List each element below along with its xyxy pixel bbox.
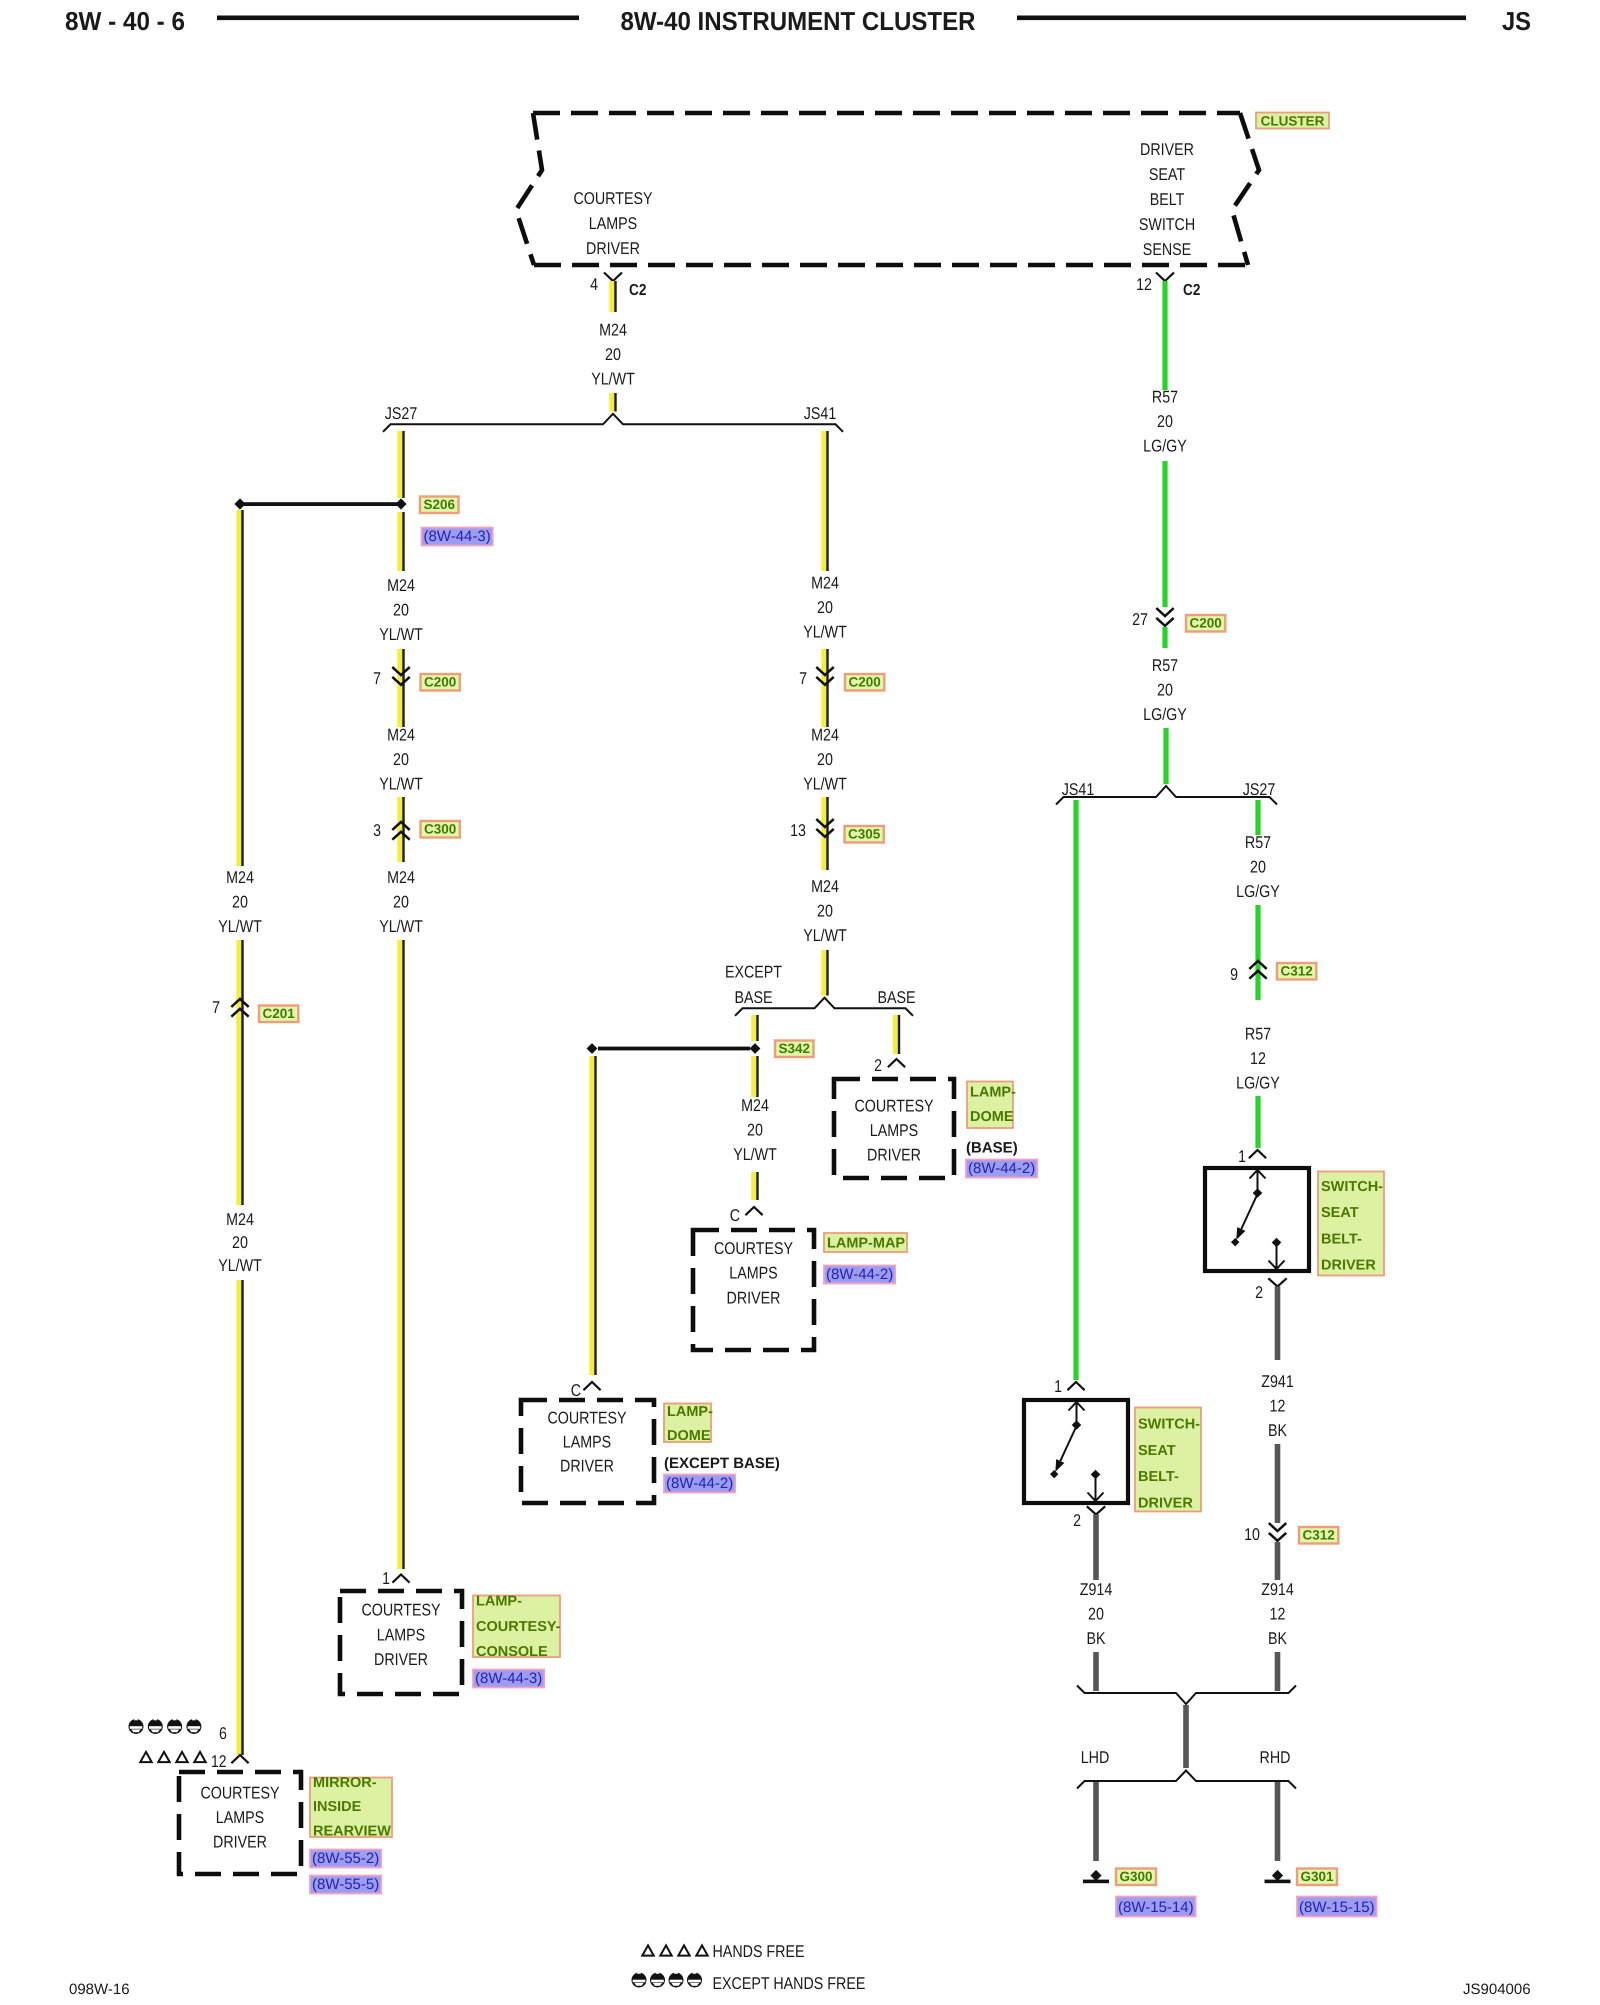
label SWITCH-SEAT BELT-DRIVER left bbox=[1135, 1408, 1201, 1512]
svg-text:LG/GY: LG/GY bbox=[1236, 882, 1280, 901]
splice S206 diamond right bbox=[395, 498, 406, 509]
wire above map lamp bbox=[751, 1172, 758, 1200]
label LAMP-MAP bbox=[824, 1233, 907, 1252]
svg-text:12: 12 bbox=[211, 1752, 227, 1771]
svg-text:2: 2 bbox=[1255, 1283, 1263, 1302]
label C200 bbox=[845, 674, 884, 691]
svg-text:DRIVER: DRIVER bbox=[867, 1146, 921, 1165]
ground G300 symbol bbox=[1083, 1870, 1109, 1883]
pin number 3 bbox=[373, 821, 381, 840]
svg-text:BASE: BASE bbox=[734, 988, 772, 1007]
svg-text:20: 20 bbox=[1088, 1605, 1104, 1624]
wire below S206 bbox=[397, 512, 404, 571]
wire base branch bbox=[893, 1015, 900, 1054]
svg-text:BASE: BASE bbox=[877, 988, 915, 1007]
wire label Z914 12 BK bbox=[1261, 1580, 1294, 1648]
wire R57 to JS split bbox=[1163, 728, 1168, 784]
header code JS bbox=[1502, 6, 1531, 36]
footer drawing number JS904006 bbox=[1463, 1981, 1531, 1998]
label C300 bbox=[421, 821, 460, 838]
svg-text:JS41: JS41 bbox=[804, 404, 837, 423]
svg-text:(BASE): (BASE) bbox=[966, 1140, 1018, 1157]
svg-text:LAMPS: LAMPS bbox=[216, 1808, 264, 1827]
splice S342 horizontal wire bbox=[598, 1047, 750, 1051]
svg-text:4: 4 bbox=[590, 275, 598, 294]
reference (8W-55-2) bbox=[310, 1850, 381, 1868]
option pin number 6 bbox=[219, 1724, 227, 1743]
header page number 8W - 40 - 6 bbox=[65, 6, 185, 36]
svg-text:M24: M24 bbox=[811, 726, 839, 745]
svg-text:C305: C305 bbox=[848, 827, 881, 842]
merge brace Z914 join bbox=[1077, 1686, 1296, 1705]
connector C200 chevrons bbox=[1156, 608, 1173, 626]
label CLUSTER bbox=[1256, 113, 1329, 129]
legend text HANDS FREE bbox=[713, 1942, 805, 1961]
wire M24 to splice brace bbox=[609, 393, 616, 412]
box text COURTESY LAMPS DRIVER bbox=[361, 1601, 440, 1669]
svg-text:SENSE: SENSE bbox=[1143, 240, 1191, 259]
svg-text:LAMPS: LAMPS bbox=[563, 1433, 611, 1452]
svg-text:RHD: RHD bbox=[1260, 1748, 1291, 1767]
svg-text:JS41: JS41 bbox=[1062, 780, 1095, 799]
svg-text:SEAT: SEAT bbox=[1321, 1205, 1359, 1221]
component CLUSTER dashed box bbox=[516, 113, 1259, 265]
svg-text:M24: M24 bbox=[599, 321, 627, 340]
wire Z941 from right switch bbox=[1275, 1287, 1281, 1361]
pin number 1 bbox=[382, 1569, 390, 1588]
svg-text:1: 1 bbox=[1054, 1377, 1062, 1396]
wire label R57 12 LG/GY bbox=[1236, 1025, 1280, 1093]
branch label JS27 bbox=[385, 404, 418, 423]
svg-text:8W-40 INSTRUMENT CLUSTER: 8W-40 INSTRUMENT CLUSTER bbox=[621, 6, 976, 36]
box text COURTESY LAMPS DRIVER bbox=[714, 1239, 793, 1307]
pin number 7 bbox=[799, 669, 807, 688]
wire R57 to C200 bbox=[1162, 461, 1167, 607]
svg-text:CONSOLE: CONSOLE bbox=[476, 1644, 548, 1660]
pin number 1 bbox=[1238, 1147, 1246, 1166]
svg-text:20: 20 bbox=[393, 750, 409, 769]
svg-text:20: 20 bbox=[1250, 858, 1266, 877]
label C200 bbox=[1186, 615, 1225, 632]
split brace LHD / RHD bbox=[1077, 1771, 1296, 1789]
svg-text:Z941: Z941 bbox=[1261, 1372, 1294, 1391]
svg-text:BELT-: BELT- bbox=[1321, 1231, 1362, 1247]
svg-text:SEAT: SEAT bbox=[1149, 165, 1185, 184]
legend except hands free circles bbox=[632, 1973, 703, 1988]
component LAMP-COURTESY-CONSOLE dashed box bbox=[340, 1591, 462, 1694]
svg-text:DRIVER: DRIVER bbox=[727, 1288, 781, 1307]
legend text EXCEPT HANDS FREE bbox=[713, 1974, 866, 1993]
wire to base split bbox=[821, 950, 828, 996]
svg-text:LAMP-: LAMP- bbox=[667, 1404, 713, 1420]
svg-text:BK: BK bbox=[1268, 1629, 1288, 1648]
svg-text:YL/WT: YL/WT bbox=[379, 917, 423, 936]
wire label M24 20 YL/WT bbox=[218, 868, 262, 936]
svg-text:20: 20 bbox=[817, 598, 833, 617]
svg-text:SWITCH: SWITCH bbox=[1139, 215, 1195, 234]
connector C2 pin 4 half-symbol bbox=[604, 273, 622, 282]
pin number 2 bbox=[1073, 1511, 1081, 1530]
svg-text:COURTESY: COURTESY bbox=[361, 1601, 440, 1620]
component SWITCH-SEAT BELT-DRIVER right box bbox=[1205, 1168, 1309, 1271]
wire label M24 20 YL/WT bbox=[379, 868, 423, 936]
box text COURTESY LAMPS DRIVER bbox=[854, 1096, 933, 1164]
svg-text:Z914: Z914 bbox=[1080, 1580, 1113, 1599]
label S206 bbox=[420, 497, 459, 514]
label C201 bbox=[259, 1006, 298, 1023]
svg-text:BK: BK bbox=[1087, 1629, 1107, 1648]
svg-text:7: 7 bbox=[212, 998, 220, 1017]
wire long run to mirror bbox=[236, 1280, 243, 1755]
svg-text:EXCEPT: EXCEPT bbox=[725, 963, 782, 982]
svg-text:JS: JS bbox=[1502, 6, 1531, 36]
splice S342 diamond right bbox=[750, 1043, 761, 1054]
pin number 4 bbox=[590, 275, 598, 294]
svg-text:YL/WT: YL/WT bbox=[733, 1145, 777, 1164]
svg-text:C312: C312 bbox=[1280, 964, 1312, 979]
label C312 bbox=[1299, 1527, 1338, 1544]
svg-text:DRIVER: DRIVER bbox=[213, 1832, 267, 1851]
svg-text:C2: C2 bbox=[629, 282, 646, 299]
svg-text:DOME: DOME bbox=[667, 1428, 711, 1444]
split brace JS27 / JS41 bbox=[383, 414, 843, 432]
svg-text:20: 20 bbox=[605, 345, 621, 364]
svg-text:YL/WT: YL/WT bbox=[379, 775, 423, 794]
svg-text:YL/WT: YL/WT bbox=[591, 370, 635, 389]
wire R57 to right switch bbox=[1255, 1096, 1260, 1148]
pin letter C bbox=[730, 1206, 740, 1225]
reference (8W-44-2) bbox=[824, 1266, 895, 1284]
wire Z941 to C312 bbox=[1275, 1444, 1281, 1523]
wire JS41 long run bbox=[1073, 800, 1078, 1380]
pin number 13 bbox=[790, 821, 806, 840]
svg-text:9: 9 bbox=[1230, 965, 1238, 984]
branch label JS41 bbox=[804, 404, 837, 423]
branch label LHD bbox=[1081, 1748, 1110, 1767]
svg-text:(8W-55-5): (8W-55-5) bbox=[312, 1876, 379, 1893]
splice S342 diamond left bbox=[587, 1043, 598, 1054]
wire Z914 joined bbox=[1183, 1705, 1189, 1768]
svg-text:R57: R57 bbox=[1245, 1025, 1271, 1044]
svg-text:1: 1 bbox=[382, 1569, 390, 1588]
svg-text:LAMP-: LAMP- bbox=[476, 1594, 522, 1610]
svg-text:S206: S206 bbox=[424, 497, 456, 512]
ground G301 symbol bbox=[1265, 1870, 1291, 1883]
reference (8W-55-5) bbox=[310, 1876, 381, 1894]
svg-text:C: C bbox=[571, 1381, 581, 1400]
connector pin C half-symbol map lamp bbox=[745, 1207, 762, 1215]
label S342 bbox=[775, 1041, 814, 1058]
svg-text:C200: C200 bbox=[1189, 616, 1221, 631]
wire below S342 bbox=[751, 1056, 758, 1097]
svg-text:3: 3 bbox=[373, 821, 381, 840]
svg-text:LAMPS: LAMPS bbox=[729, 1264, 777, 1283]
component LAMP-DOME base dashed box bbox=[834, 1079, 954, 1178]
svg-text:HANDS FREE: HANDS FREE bbox=[713, 1942, 805, 1961]
wire label M24 20 YL/WT bbox=[803, 726, 847, 794]
connector C2 pin 12 half-symbol bbox=[1156, 273, 1174, 282]
svg-text:(8W-44-3): (8W-44-3) bbox=[475, 1670, 542, 1687]
svg-text:COURTESY: COURTESY bbox=[200, 1784, 279, 1803]
svg-text:12: 12 bbox=[1270, 1605, 1286, 1624]
svg-text:6: 6 bbox=[219, 1724, 227, 1743]
splice S206 horizontal wire bbox=[243, 502, 398, 506]
cluster pin label DRIVER SEAT BELT SWITCH SENSE bbox=[1139, 140, 1195, 259]
wire R57 to C312 bbox=[1255, 905, 1260, 1000]
svg-text:DRIVER: DRIVER bbox=[374, 1650, 428, 1669]
svg-text:C201: C201 bbox=[262, 1006, 295, 1021]
reference (8W-44-2) bbox=[664, 1475, 735, 1493]
connector pin 1 half-symbol right switch bbox=[1249, 1150, 1266, 1158]
wire JS27 long run to console lamp bbox=[397, 940, 404, 1569]
label C305 bbox=[845, 826, 884, 843]
svg-text:JS27: JS27 bbox=[385, 404, 418, 423]
branch label EXCEPT BASE bbox=[725, 963, 782, 1008]
pin number 1 bbox=[1054, 1377, 1062, 1396]
wire M24 from cluster C2 bbox=[609, 281, 616, 312]
svg-text:(8W-44-2): (8W-44-2) bbox=[826, 1266, 893, 1283]
label C312 bbox=[1277, 963, 1316, 980]
wire Z914 to merge bbox=[1093, 1652, 1099, 1691]
svg-text:13: 13 bbox=[790, 821, 806, 840]
svg-text:LAMPS: LAMPS bbox=[377, 1625, 425, 1644]
svg-text:20: 20 bbox=[232, 893, 248, 912]
connector pin 2 half-symbol dome lamp base bbox=[888, 1059, 905, 1067]
wire label M24 20 YL/WT bbox=[803, 877, 847, 945]
connector C312 chevrons bbox=[1249, 961, 1266, 979]
svg-text:M24: M24 bbox=[811, 877, 839, 896]
wire LHD to ground bbox=[1093, 1782, 1099, 1861]
reference (8W-15-15) bbox=[1297, 1897, 1377, 1917]
header rule right bbox=[1017, 16, 1466, 21]
wire R57 below C200 bbox=[1162, 627, 1167, 648]
connector pin 1 half-symbol left switch bbox=[1067, 1382, 1084, 1390]
svg-text:20: 20 bbox=[232, 1233, 248, 1252]
annotation (BASE) bbox=[966, 1140, 1018, 1157]
branch label JS41 bbox=[1062, 780, 1095, 799]
svg-text:LAMP-: LAMP- bbox=[970, 1085, 1016, 1101]
component MIRROR-INSIDE-REARVIEW dashed box bbox=[179, 1772, 301, 1874]
option icons except-hands-free row bbox=[129, 1719, 202, 1734]
svg-text:(8W-44-3): (8W-44-3) bbox=[424, 528, 491, 545]
wire label M24 20 YL/WT bbox=[591, 321, 635, 389]
svg-text:INSIDE: INSIDE bbox=[313, 1799, 362, 1815]
split brace EXCEPT BASE / BASE bbox=[735, 998, 913, 1016]
wire label R57 20 LG/GY bbox=[1236, 833, 1280, 901]
pin number 9 bbox=[1230, 965, 1238, 984]
option pin number 12 bbox=[211, 1752, 227, 1771]
svg-text:CLUSTER: CLUSTER bbox=[1261, 114, 1325, 129]
connector pin 2 half-symbol left switch bbox=[1087, 1506, 1105, 1514]
svg-text:G301: G301 bbox=[1301, 1869, 1334, 1884]
svg-text:20: 20 bbox=[393, 601, 409, 620]
wire label R57 20 LG/GY bbox=[1143, 388, 1187, 456]
svg-text:20: 20 bbox=[817, 750, 833, 769]
svg-text:20: 20 bbox=[1157, 412, 1173, 431]
svg-text:DRIVER: DRIVER bbox=[560, 1457, 614, 1476]
svg-text:LAMPS: LAMPS bbox=[589, 214, 637, 233]
svg-text:M24: M24 bbox=[387, 868, 415, 887]
wire R57 from cluster bbox=[1162, 281, 1167, 390]
svg-text:C: C bbox=[730, 1206, 740, 1225]
svg-text:G300: G300 bbox=[1120, 1869, 1153, 1884]
box text COURTESY LAMPS DRIVER bbox=[200, 1784, 279, 1852]
svg-text:COURTESY: COURTESY bbox=[714, 1239, 793, 1258]
svg-text:LHD: LHD bbox=[1081, 1748, 1110, 1767]
header title 8W-40 INSTRUMENT CLUSTER bbox=[621, 6, 976, 36]
svg-text:20: 20 bbox=[817, 902, 833, 921]
wire label M24 20 YL/WT bbox=[733, 1096, 777, 1164]
pin number 27 bbox=[1132, 610, 1148, 629]
svg-text:C300: C300 bbox=[424, 822, 456, 837]
svg-text:(8W-44-2): (8W-44-2) bbox=[666, 1475, 733, 1492]
svg-text:(EXCEPT BASE): (EXCEPT BASE) bbox=[664, 1455, 780, 1472]
svg-text:7: 7 bbox=[373, 669, 381, 688]
svg-text:BELT: BELT bbox=[1150, 190, 1185, 209]
label G300 bbox=[1116, 1869, 1156, 1886]
annotation (EXCEPT BASE) bbox=[664, 1455, 780, 1472]
svg-text:R57: R57 bbox=[1152, 656, 1178, 675]
connector C300 chevrons bbox=[392, 822, 409, 840]
splice S206 diamond left bbox=[234, 498, 245, 509]
svg-text:JS27: JS27 bbox=[1243, 780, 1276, 799]
connector C312 chevrons bbox=[1269, 1523, 1286, 1541]
pin number 2 bbox=[1255, 1283, 1263, 1302]
reference (8W-44-3) bbox=[422, 528, 493, 546]
svg-text:LAMP-MAP: LAMP-MAP bbox=[827, 1236, 905, 1252]
svg-text:M24: M24 bbox=[226, 868, 254, 887]
svg-text:DRIVER: DRIVER bbox=[1138, 1495, 1193, 1511]
connector pin 2 half-symbol right switch bbox=[1268, 1278, 1286, 1286]
wire label M24 20 YL/WT bbox=[218, 1210, 262, 1275]
wire Z914 right to merge bbox=[1275, 1652, 1281, 1691]
wire S206 branch down bbox=[236, 510, 243, 866]
connector C200 chevrons bbox=[816, 667, 833, 685]
svg-text:20: 20 bbox=[747, 1121, 763, 1140]
connector name C2 bbox=[629, 282, 646, 299]
svg-text:LG/GY: LG/GY bbox=[1236, 1074, 1280, 1093]
wire dome lamp drop bbox=[589, 1056, 596, 1375]
svg-text:R57: R57 bbox=[1245, 833, 1271, 852]
connector pin 12 half-symbol bbox=[231, 1755, 248, 1763]
pin number 7 bbox=[373, 669, 381, 688]
svg-text:DOME: DOME bbox=[970, 1109, 1014, 1125]
wire JS41 branch upper bbox=[821, 431, 828, 571]
reference (8W-44-3) bbox=[473, 1670, 544, 1688]
svg-text:COURTESY: COURTESY bbox=[547, 1409, 626, 1428]
svg-text:C312: C312 bbox=[1302, 1528, 1334, 1543]
svg-text:REARVIEW: REARVIEW bbox=[313, 1823, 391, 1839]
header rule left bbox=[217, 16, 579, 21]
svg-text:MIRROR-: MIRROR- bbox=[313, 1775, 377, 1791]
svg-text:10: 10 bbox=[1244, 1525, 1260, 1544]
footer sheet code 098W-16 bbox=[69, 1981, 130, 1998]
svg-text:C200: C200 bbox=[424, 675, 456, 690]
connector pin 1 half-symbol bbox=[392, 1575, 409, 1583]
svg-text:20: 20 bbox=[393, 893, 409, 912]
connector C305 chevrons bbox=[816, 819, 833, 837]
wire label Z914 20 BK bbox=[1080, 1580, 1113, 1648]
svg-text:YL/WT: YL/WT bbox=[803, 775, 847, 794]
svg-text:2: 2 bbox=[874, 1056, 882, 1075]
svg-text:S342: S342 bbox=[779, 1041, 811, 1056]
label LAMP-DOME bbox=[967, 1082, 1016, 1129]
pin number 2 bbox=[874, 1056, 882, 1075]
svg-text:(8W-55-2): (8W-55-2) bbox=[312, 1850, 379, 1867]
svg-text:YL/WT: YL/WT bbox=[803, 623, 847, 642]
svg-text:SWITCH-: SWITCH- bbox=[1321, 1179, 1383, 1195]
svg-text:R57: R57 bbox=[1152, 388, 1178, 407]
svg-text:YL/WT: YL/WT bbox=[379, 625, 423, 644]
svg-text:1: 1 bbox=[1238, 1147, 1246, 1166]
label LAMP-COURTESY-CONSOLE bbox=[473, 1594, 561, 1661]
svg-text:BK: BK bbox=[1268, 1421, 1288, 1440]
wire label M24 20 YL/WT bbox=[803, 574, 847, 642]
label G301 bbox=[1297, 1869, 1337, 1886]
wire except-base branch bbox=[751, 1015, 758, 1041]
svg-text:M24: M24 bbox=[811, 574, 839, 593]
svg-text:(8W-15-15): (8W-15-15) bbox=[1299, 1899, 1375, 1916]
svg-text:DRIVER: DRIVER bbox=[1140, 140, 1194, 159]
wire label M24 20 YL/WT bbox=[379, 726, 423, 794]
branch label BASE bbox=[877, 988, 915, 1007]
pin number 7 bbox=[212, 998, 220, 1017]
wire Z914 below C312 bbox=[1275, 1542, 1281, 1580]
wire JS27 branch bbox=[1255, 800, 1260, 835]
reference (8W-15-14) bbox=[1116, 1897, 1196, 1917]
svg-text:(8W-15-14): (8W-15-14) bbox=[1118, 1899, 1194, 1916]
branch label JS27 bbox=[1243, 780, 1276, 799]
label SWITCH-SEAT BELT-DRIVER right bbox=[1318, 1172, 1384, 1276]
svg-text:Z914: Z914 bbox=[1261, 1580, 1294, 1599]
connector pin C half-symbol dome lamp bbox=[583, 1382, 600, 1390]
wire label Z941 12 BK bbox=[1261, 1372, 1294, 1440]
wire RHD to ground bbox=[1275, 1782, 1281, 1861]
reference (8W-44-2) bbox=[966, 1160, 1037, 1178]
option icons hands-free row bbox=[140, 1752, 205, 1762]
pin number 10 bbox=[1244, 1525, 1260, 1544]
pin number 12 bbox=[1136, 275, 1152, 294]
wire label R57 20 LG/GY bbox=[1143, 656, 1187, 724]
wire through C305 bbox=[821, 797, 828, 870]
svg-text:7: 7 bbox=[799, 669, 807, 688]
component LAMP-MAP dashed box bbox=[693, 1230, 814, 1350]
svg-text:JS904006: JS904006 bbox=[1463, 1981, 1531, 1998]
split brace JS41 / JS27 bbox=[1056, 786, 1277, 805]
svg-text:12: 12 bbox=[1270, 1397, 1286, 1416]
wire through C200 bbox=[821, 649, 828, 727]
svg-text:YL/WT: YL/WT bbox=[218, 917, 262, 936]
svg-text:COURTESY: COURTESY bbox=[573, 189, 652, 208]
svg-text:27: 27 bbox=[1132, 610, 1148, 629]
wire JS27 branch upper bbox=[397, 431, 404, 498]
pin letter C bbox=[571, 1381, 581, 1400]
svg-text:8W - 40 - 6: 8W - 40 - 6 bbox=[65, 6, 185, 36]
wire through C300 bbox=[397, 797, 404, 862]
svg-text:C2: C2 bbox=[1183, 282, 1200, 299]
svg-text:COURTESY-: COURTESY- bbox=[476, 1619, 561, 1635]
cluster pin label COURTESY LAMPS DRIVER bbox=[573, 189, 652, 258]
svg-text:YL/WT: YL/WT bbox=[803, 926, 847, 945]
svg-text:COURTESY: COURTESY bbox=[854, 1096, 933, 1115]
svg-text:2: 2 bbox=[1073, 1511, 1081, 1530]
branch label RHD bbox=[1260, 1748, 1291, 1767]
svg-text:12: 12 bbox=[1136, 275, 1152, 294]
svg-text:LAMPS: LAMPS bbox=[870, 1121, 918, 1140]
wire through C201 bbox=[236, 940, 243, 1205]
connector C200 chevrons bbox=[392, 667, 409, 685]
svg-text:YL/WT: YL/WT bbox=[218, 1256, 262, 1275]
